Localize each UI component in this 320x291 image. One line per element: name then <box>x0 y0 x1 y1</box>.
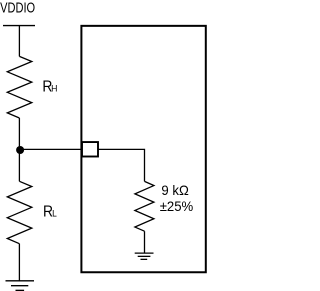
pin pad square <box>82 142 98 156</box>
wire VDDIO rail to RH <box>18 26 20 57</box>
svg-text:±25%: ±25% <box>160 198 194 213</box>
svg-text:H: H <box>51 83 57 93</box>
node junction dot <box>16 146 24 154</box>
IC box <box>81 26 205 272</box>
resistor RH <box>7 56 32 118</box>
svg-text:9 kΩ: 9 kΩ <box>161 182 188 197</box>
wire pin to internal resistor <box>99 149 145 181</box>
svg-text:VDDIO: VDDIO <box>0 0 35 16</box>
ground (internal) <box>135 253 154 259</box>
resistor RL <box>7 181 32 243</box>
ground (left, external) <box>6 281 35 291</box>
wire RL to ground <box>18 244 20 281</box>
wire node to pin <box>19 148 82 150</box>
power rail bar VDDIO <box>3 25 35 27</box>
label RH <box>42 79 57 96</box>
resistor 9k internal <box>135 181 154 231</box>
wire node to RL <box>18 149 20 181</box>
wire RH to node <box>18 118 20 149</box>
wire 9k to internal ground <box>144 231 146 253</box>
label RL <box>43 204 57 221</box>
svg-text:L: L <box>52 208 57 219</box>
